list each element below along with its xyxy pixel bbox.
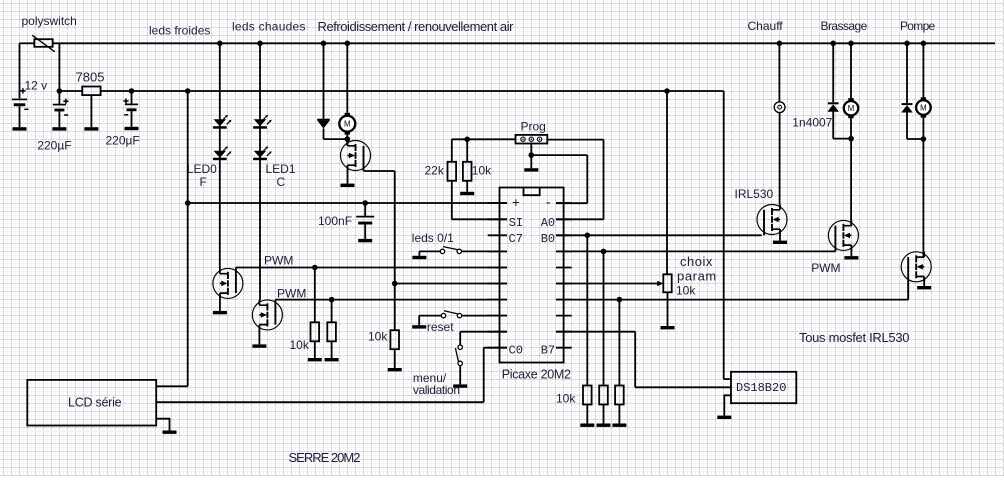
wire serial-in to Prog pin1 bbox=[452, 138, 516, 140]
switch SW3 menu/validation bbox=[455, 345, 462, 366]
wire Q6 source to ground bbox=[923, 277, 925, 287]
svg-text:choix: choix bbox=[680, 254, 713, 269]
ground R6 bbox=[580, 424, 594, 427]
ground R8 bbox=[612, 424, 626, 427]
wire R1 top lead bbox=[451, 139, 453, 162]
transistor Q5 brassage bbox=[828, 220, 858, 251]
svg-text:M: M bbox=[920, 103, 927, 112]
resistor R2 10k bbox=[463, 162, 472, 181]
ground Q2 bbox=[252, 344, 266, 347]
ground C3 bbox=[358, 239, 372, 242]
node pompe drain bbox=[921, 136, 927, 142]
node 5V rail LCD tap bbox=[185, 88, 191, 94]
node Prog pin2 bbox=[529, 152, 535, 158]
ground R3 bbox=[308, 358, 322, 361]
wire Prog pin2 to minus riser bbox=[531, 154, 587, 156]
wire R2 bottom lead bbox=[466, 181, 468, 192]
wire R5 bottom lead bbox=[394, 349, 396, 368]
node 100nF tap bbox=[362, 200, 368, 206]
resistor R7 10k bbox=[599, 386, 608, 405]
ground Q5 bbox=[844, 256, 858, 259]
node fan gate to IC bbox=[392, 281, 398, 287]
wire IC pin stubs bbox=[488, 203, 572, 348]
transistor Q4 IRL530 chauff bbox=[757, 205, 787, 236]
svg-text:M: M bbox=[344, 120, 351, 129]
svg-text:7805: 7805 bbox=[76, 70, 105, 85]
ground menu switch bbox=[453, 384, 467, 387]
connector J1 Prog bbox=[516, 135, 548, 144]
op-amp U1 Picaxe 20M2 IC body bbox=[500, 188, 564, 363]
ground R2 bbox=[460, 192, 474, 195]
wire DS18B20 vcc stub bbox=[724, 378, 731, 380]
wire pompe node to Q6 drain bbox=[922, 139, 924, 257]
ground LCD bbox=[163, 431, 177, 434]
svg-text:polyswitch: polyswitch bbox=[22, 14, 77, 28]
switch SW2 reset bbox=[441, 311, 461, 318]
capacitor C3 100nF bbox=[356, 217, 374, 225]
node PWM1 pulldown tap bbox=[312, 265, 318, 271]
resistor R8 10k bbox=[615, 386, 624, 405]
resistor R6 10k bbox=[583, 386, 592, 405]
svg-text:param: param bbox=[677, 269, 717, 284]
ground C1 bbox=[52, 127, 66, 130]
wire minus riser bbox=[586, 155, 588, 203]
node PWM2 pulldown tap bbox=[329, 297, 335, 303]
wire R4 bottom lead bbox=[331, 341, 333, 358]
block LCD serie bbox=[27, 380, 156, 426]
wire Q5 source to ground bbox=[850, 245, 852, 256]
wire brassage diode bottom lead bbox=[832, 112, 834, 139]
wire DS18B20 data horizontal bbox=[635, 386, 731, 388]
wire PWM1 gate rail to IC C1 pin bbox=[236, 267, 507, 269]
wire LCD ground stub bbox=[156, 419, 169, 431]
wire fan diode column bbox=[323, 43, 325, 118]
svg-text:validation: validation bbox=[413, 383, 460, 397]
transistor Q1 leds froides bbox=[213, 268, 243, 299]
node fan drain bbox=[345, 136, 351, 142]
diode D6 1n4007 brassage bbox=[827, 102, 839, 111]
wire Q3 gate lead bbox=[364, 170, 395, 172]
wire C0 to LCD data bbox=[156, 401, 484, 403]
wire IC minus pin to riser bbox=[556, 202, 587, 204]
wire fan motor bottom lead bbox=[346, 135, 348, 141]
svg-text:DS18B20: DS18B20 bbox=[736, 381, 786, 395]
wire reset ground stub bbox=[418, 316, 420, 326]
wire brassage node to Q5 drain bbox=[850, 139, 852, 226]
motor M brassage bbox=[844, 98, 858, 118]
resistor R3 10k bbox=[311, 322, 320, 341]
wire IC to potentiometer wiper bbox=[556, 283, 662, 285]
ground Q3 bbox=[341, 184, 355, 187]
wire 5V to IC plus pin bbox=[188, 202, 507, 204]
wire C1 top lead bbox=[58, 91, 60, 105]
svg-text:10k: 10k bbox=[368, 330, 388, 344]
battery BT1 12V bbox=[12, 88, 29, 109]
wire C1 bottom lead bbox=[58, 111, 60, 127]
svg-text:Chauff: Chauff bbox=[748, 19, 784, 33]
svg-text:C0: C0 bbox=[509, 343, 523, 357]
svg-text:220µF: 220µF bbox=[106, 134, 140, 148]
wire reset switch left bbox=[419, 315, 441, 317]
ground battery bbox=[13, 127, 27, 130]
wire pulldown3 drop bbox=[618, 300, 620, 386]
wire menu switch to IC pin bbox=[460, 331, 507, 333]
ground Q1 bbox=[213, 311, 227, 314]
wire leds switch ground stub bbox=[418, 251, 420, 255]
ground R4 bbox=[325, 358, 339, 361]
svg-text:C: C bbox=[277, 175, 286, 189]
svg-text:22k: 22k bbox=[425, 164, 445, 178]
svg-text:100nF: 100nF bbox=[318, 214, 352, 228]
node R2 tap bbox=[464, 137, 470, 143]
wire fan motor top lead bbox=[346, 43, 348, 113]
svg-text:LED1: LED1 bbox=[266, 162, 296, 176]
block DS18B20 bbox=[731, 372, 796, 403]
svg-text:Prog: Prog bbox=[521, 120, 546, 134]
wire pompe diode top lead bbox=[906, 43, 908, 103]
svg-text:-: - bbox=[544, 196, 552, 211]
svg-text:PWM: PWM bbox=[264, 254, 293, 268]
wire fan diode bottom lead bbox=[323, 129, 325, 140]
capacitor C1 220uF bbox=[53, 99, 69, 115]
svg-text:IRL530: IRL530 bbox=[735, 187, 774, 201]
svg-text:10k: 10k bbox=[676, 284, 696, 298]
wire C0 drop bbox=[483, 348, 485, 403]
wire DS18B20 data drop bbox=[634, 332, 636, 388]
switch SW1 leds 0/1 bbox=[440, 247, 461, 254]
svg-text:Picaxe 20M2: Picaxe 20M2 bbox=[502, 368, 571, 382]
potentiometer RV1 10k wiper arrow bbox=[657, 281, 663, 287]
wire battery top lead bbox=[19, 43, 21, 98]
LED D2 froides bottom bbox=[213, 146, 232, 160]
ground R5 bbox=[388, 368, 402, 371]
svg-text:Brassage: Brassage bbox=[821, 19, 868, 33]
node C2 tap bbox=[129, 88, 135, 94]
wire IC C0 pin left bbox=[484, 347, 507, 349]
svg-text:leds chaudes: leds chaudes bbox=[232, 20, 306, 34]
svg-text:B7: B7 bbox=[541, 343, 555, 357]
svg-text:leds 0/1: leds 0/1 bbox=[412, 231, 454, 245]
wire leds switch to IC C3 pin bbox=[462, 250, 508, 252]
wire reset switch to IC pin bbox=[462, 315, 507, 317]
wire C2 top lead bbox=[131, 91, 133, 104]
wire Q1 source to ground bbox=[219, 293, 221, 311]
regulator U2 7805 bbox=[82, 87, 100, 96]
node top rail leds froides bbox=[217, 41, 223, 47]
node B2 pulldown tap bbox=[617, 297, 623, 303]
wire brassage diode to motor node bbox=[833, 138, 851, 140]
ground C2 bbox=[125, 127, 139, 130]
transistor Q6 pompe bbox=[901, 252, 931, 300]
wire LCD 5V feed bbox=[156, 385, 188, 387]
svg-text:1n4007: 1n4007 bbox=[792, 116, 832, 130]
wire R6 bottom lead bbox=[586, 405, 588, 424]
svg-text:12 v: 12 v bbox=[25, 79, 48, 93]
transistor Q2 leds chaudes bbox=[252, 300, 282, 330]
svg-text:LED0: LED0 bbox=[187, 162, 217, 176]
capacitor C2 220uF bbox=[123, 98, 138, 114]
wire C2 bottom lead bbox=[131, 111, 133, 127]
node 5V to IC plus bbox=[185, 200, 191, 206]
wire to IC SI pin bbox=[452, 218, 507, 220]
diode D7 pompe bbox=[901, 103, 913, 112]
svg-text:LCD série: LCD série bbox=[68, 396, 122, 410]
ground Q6 bbox=[917, 286, 931, 289]
wire menu switch bottom lead bbox=[459, 366, 461, 385]
wire fan diode to motor node bbox=[324, 138, 348, 140]
ground Q4 bbox=[773, 241, 787, 244]
LED D1 froides top bbox=[213, 115, 232, 129]
ground R7 bbox=[597, 424, 611, 427]
wire R1 to SI pin bbox=[451, 181, 453, 220]
node B0 pulldown tap bbox=[585, 233, 591, 239]
potentiometer RV1 10k body bbox=[663, 274, 671, 292]
ground 7805 bbox=[84, 127, 98, 130]
wire +12V top rail bbox=[53, 42, 995, 44]
wire Q2 source to ground bbox=[258, 325, 260, 345]
wire Prog pin3 right bbox=[547, 139, 603, 141]
wire leds chaudes column bbox=[259, 43, 261, 300]
node top rail fan diode bbox=[321, 41, 327, 47]
wire DS18B20 ground stub bbox=[724, 395, 731, 415]
node 12V junction bbox=[57, 88, 63, 94]
wire pompe motor top lead bbox=[922, 43, 924, 100]
wire leds switch left bbox=[419, 250, 440, 252]
wire menu switch top lead bbox=[459, 332, 461, 345]
wire chauff column top bbox=[778, 43, 780, 102]
wire R8 bottom lead bbox=[618, 405, 620, 424]
wire pompe motor bottom lead bbox=[922, 118, 924, 141]
resistor R4 10k bbox=[327, 322, 336, 341]
svg-text:+: + bbox=[512, 197, 520, 212]
svg-text:F: F bbox=[200, 175, 207, 189]
node top rail brassage diode bbox=[830, 41, 836, 47]
wire R2 top lead bbox=[466, 139, 468, 162]
wire pulldown2 drop bbox=[603, 251, 605, 385]
LED D4 chaudes bottom bbox=[253, 146, 272, 160]
wire C3 bottom lead bbox=[364, 225, 366, 239]
svg-text:M: M bbox=[848, 104, 855, 113]
svg-text:Pompe: Pompe bbox=[900, 19, 936, 33]
svg-text:10k: 10k bbox=[556, 392, 576, 406]
wire R4 top lead bbox=[331, 300, 333, 323]
node 5V pot tap bbox=[664, 88, 670, 94]
wire R pulldown1 top lead bbox=[314, 268, 316, 323]
wire Q4 source to ground bbox=[779, 229, 781, 240]
wire battery neg lead bbox=[19, 106, 21, 127]
wire brassage diode top lead bbox=[832, 43, 834, 102]
node B1 pulldown tap bbox=[601, 249, 607, 255]
wire PWM2 gate rail to IC C2 pin bbox=[275, 299, 507, 301]
wire 12V drop to regulator node bbox=[58, 43, 60, 91]
svg-text:C7: C7 bbox=[509, 232, 523, 246]
switch leds 0/1 ground bbox=[412, 256, 426, 259]
wire R7 bottom lead bbox=[603, 405, 605, 424]
node top rail pompe diode bbox=[904, 41, 910, 47]
wire brassage motor top lead bbox=[850, 43, 852, 98]
ground DS18B20 bbox=[717, 416, 731, 419]
svg-text:PWM: PWM bbox=[811, 261, 840, 275]
node top rail leds chaudes bbox=[257, 41, 263, 47]
ground Prog bbox=[524, 168, 538, 171]
wire battery+ to polyswitch bbox=[20, 42, 35, 44]
resistor R5 10k bbox=[390, 330, 399, 349]
wire fan gate to IC C5 pin bbox=[395, 283, 507, 285]
switch reset ground bbox=[412, 325, 426, 328]
wire IC to DS18B20 data bbox=[556, 331, 635, 333]
motor M pompe bbox=[916, 97, 931, 117]
node top rail pompe motor bbox=[921, 41, 927, 47]
svg-text:220µF: 220µF bbox=[37, 139, 71, 153]
wire B1 rail to brassage gate bbox=[556, 250, 836, 252]
svg-text:10k: 10k bbox=[472, 164, 492, 178]
svg-text:leds froides: leds froides bbox=[149, 24, 210, 38]
diode D5 fan flyback bbox=[317, 119, 330, 129]
node top rail fan motor bbox=[345, 41, 351, 47]
wire pompe diode to motor node bbox=[907, 138, 924, 140]
svg-text:Refroidissement / renouvelleme: Refroidissement / renouvellement air bbox=[318, 19, 515, 34]
wire pompe diode bottom lead bbox=[906, 112, 908, 139]
svg-text:Tous mosfet IRL530: Tous mosfet IRL530 bbox=[799, 330, 909, 345]
wire Q3 gate vertical to pulldown bbox=[394, 171, 396, 330]
transistor Q3 fan bbox=[341, 141, 371, 172]
wire pot bottom lead bbox=[667, 292, 669, 326]
wire 5V drop to LCD bbox=[187, 91, 189, 386]
wire B0 rail to IRL530 gate bbox=[556, 234, 762, 236]
node top rail brassage motor bbox=[848, 41, 854, 47]
resistor R1 22k bbox=[448, 162, 457, 181]
wire Prog pin2 down bbox=[530, 144, 532, 169]
wire 12V to 7805 input bbox=[59, 90, 82, 92]
motor M fan bbox=[339, 113, 355, 135]
wire chauff to Q4 drain bbox=[779, 113, 781, 205]
svg-text:B0: B0 bbox=[541, 232, 555, 246]
svg-text:PWM: PWM bbox=[277, 287, 306, 301]
wire 7805 ground lead bbox=[90, 95, 92, 127]
wire C3 top lead bbox=[364, 203, 366, 216]
svg-text:10k: 10k bbox=[290, 338, 310, 352]
svg-text:SERRE 20M2: SERRE 20M2 bbox=[289, 450, 361, 465]
wire IC A0 pin to riser bbox=[556, 218, 604, 220]
wire brassage motor bottom lead bbox=[850, 118, 852, 140]
LED D3 chaudes top bbox=[253, 115, 272, 129]
node brassage drain bbox=[848, 136, 854, 142]
wire leds froides column bbox=[219, 43, 221, 268]
ground pot bbox=[661, 326, 675, 329]
wire +5V rail bbox=[101, 90, 724, 92]
svg-text:A0: A0 bbox=[541, 216, 555, 230]
wire R3 bottom lead bbox=[314, 341, 316, 358]
svg-text:SI: SI bbox=[509, 216, 523, 230]
node top rail chauff bbox=[777, 41, 783, 47]
wire Q3 source to ground bbox=[347, 165, 349, 183]
wire Prog pin3 riser to A0 bbox=[603, 140, 605, 220]
wire fan node to Q3 drain bbox=[346, 139, 348, 146]
connector chauff output bbox=[774, 102, 785, 113]
wire pulldown1 drop bbox=[586, 235, 588, 385]
wire 5V drop to DS18B20 bbox=[723, 91, 725, 379]
polyswitch F1 bbox=[32, 35, 55, 52]
wire 5V to pot top bbox=[666, 91, 668, 274]
svg-text:reset: reset bbox=[427, 320, 454, 334]
wire B2 rail to pompe gate bbox=[556, 299, 908, 301]
